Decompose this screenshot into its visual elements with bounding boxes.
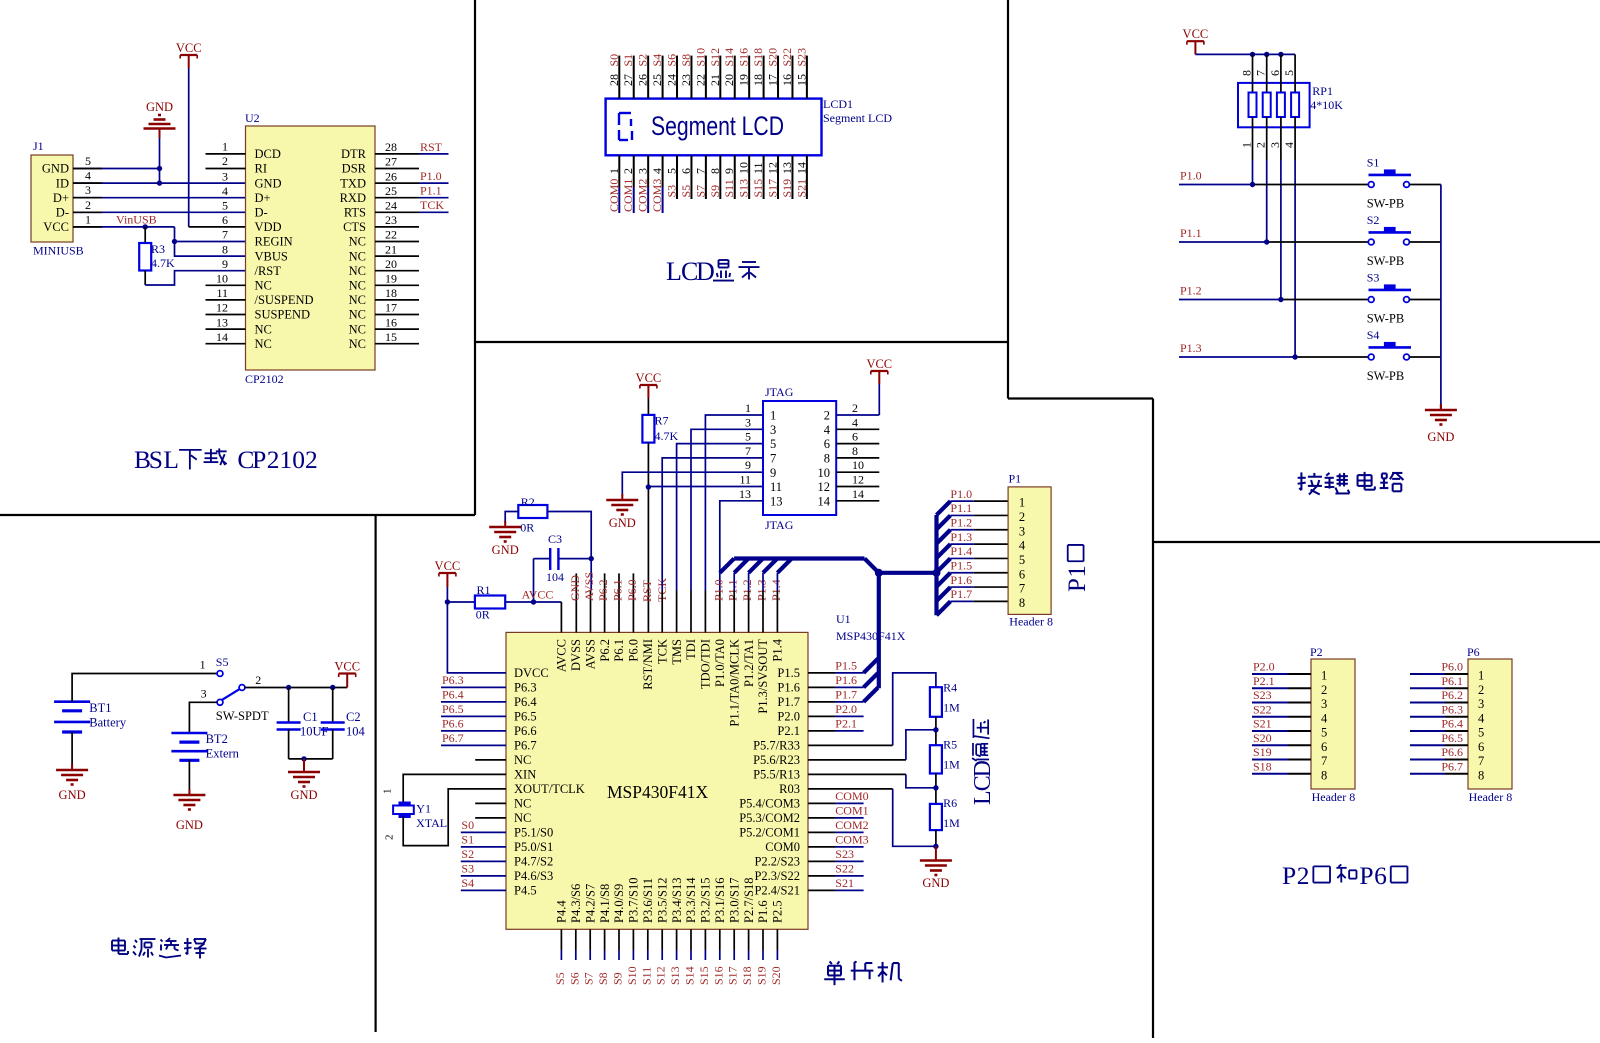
svg-text:18: 18 (385, 286, 397, 300)
P6.2 P6.1 P6.0 top stubs (604, 573, 606, 632)
svg-text:P1.0/TA0: P1.0/TA0 (713, 639, 727, 687)
svg-text:NC: NC (349, 279, 366, 293)
panel border bottom of keypad panel (1008, 397, 1153, 399)
svg-text:1: 1 (1064, 565, 1091, 577)
ground GND (R2) (504, 521, 506, 527)
svg-text:P4.3/S6: P4.3/S6 (569, 884, 583, 923)
wire Y1 pin2 to XOUT (403, 789, 506, 846)
svg-text:LCD1: LCD1 (823, 97, 853, 111)
svg-text:P1.0: P1.0 (420, 169, 442, 183)
svg-text:6: 6 (1268, 70, 1282, 76)
svg-text:P3.6/S11: P3.6/S11 (641, 878, 655, 923)
svg-text:3: 3 (636, 168, 650, 174)
svg-text:2: 2 (1321, 683, 1327, 697)
svg-text:P1.7: P1.7 (950, 587, 972, 601)
svg-text:S10: S10 (693, 48, 707, 67)
svg-text:2: 2 (852, 401, 858, 415)
bus vertical at header (934, 515, 938, 615)
svg-text:P1: P1 (1009, 472, 1022, 486)
net label RST (419, 153, 449, 155)
svg-text:S2: S2 (461, 847, 474, 861)
wire S3 to ground rail (1409, 299, 1441, 301)
LCD bottom pin 13 wire (791, 155, 793, 199)
JTAG pin5 wire to TMS (677, 444, 763, 591)
svg-text:P1.1/TA0/MCLK: P1.1/TA0/MCLK (727, 639, 741, 727)
svg-text:P6.4: P6.4 (442, 688, 464, 702)
svg-text:1M: 1M (943, 816, 960, 830)
svg-text:SW-SPDT: SW-SPDT (216, 709, 269, 723)
svg-text:S14: S14 (683, 966, 697, 985)
svg-text:21: 21 (385, 242, 397, 256)
svg-text:3: 3 (201, 687, 207, 701)
svg-text:S17: S17 (726, 966, 740, 985)
U2 left pin stubs 10-14 (206, 284, 246, 286)
svg-text:DTR: DTR (341, 147, 367, 161)
svg-text:NC: NC (349, 249, 366, 263)
svg-text:16: 16 (385, 315, 397, 329)
svg-text:DVSS: DVSS (569, 639, 583, 671)
svg-text:S4: S4 (650, 54, 664, 67)
svg-text:1: 1 (607, 168, 621, 174)
svg-text:VinUSB: VinUSB (116, 213, 157, 227)
svg-text:S12: S12 (708, 48, 722, 67)
wire TCK column stub (661, 591, 663, 633)
svg-text:10UF: 10UF (300, 725, 329, 739)
svg-text:P2.1: P2.1 (1253, 674, 1275, 688)
svg-text:P1.4: P1.4 (769, 579, 783, 601)
svg-text:3: 3 (1268, 142, 1282, 148)
power VCC (R7) (640, 384, 657, 386)
svg-text:4: 4 (1478, 711, 1485, 725)
wire R6 bottom to node C (935, 830, 937, 846)
JTAG pin7 wire to TCK (662, 458, 763, 591)
IC LCD1 Segment LCD body (606, 99, 822, 156)
wire R33 to R4 (808, 744, 893, 746)
wire P1.6 to bus (808, 686, 835, 688)
wire TDI column stub (690, 591, 692, 633)
svg-text:BT1: BT1 (89, 701, 111, 715)
LCD bottom pin 4 wire (662, 155, 664, 187)
wire P2 pin3 (S23) (1252, 702, 1288, 704)
svg-text:11: 11 (216, 286, 228, 300)
svg-text:P6.6: P6.6 (514, 724, 537, 738)
svg-text:P1.4: P1.4 (950, 544, 972, 558)
net label P1.0 (419, 182, 449, 184)
svg-text:25: 25 (385, 184, 397, 198)
svg-text:ID: ID (56, 176, 69, 190)
svg-text:RTS: RTS (344, 206, 366, 220)
label LCD bias (rotated) (970, 719, 996, 805)
bus diagonals to header rows (937, 501, 951, 515)
svg-text:S20: S20 (769, 966, 783, 985)
svg-text:P4.2/S7: P4.2/S7 (583, 884, 597, 923)
svg-text:P1.6: P1.6 (835, 673, 857, 687)
svg-text:2: 2 (267, 445, 280, 474)
wire GND stem down to J1 (159, 138, 161, 183)
svg-text:U1: U1 (836, 612, 851, 626)
wire P1.2 to switch S3 (1179, 299, 1281, 301)
svg-text:1: 1 (770, 409, 776, 423)
svg-text:NC: NC (349, 293, 366, 307)
wire P2 pin6 (S20) (1252, 744, 1288, 746)
svg-text:Segment LCD: Segment LCD (651, 111, 784, 141)
LCD top pin 23 wire (690, 56, 692, 99)
svg-text:P6.6: P6.6 (442, 717, 464, 731)
ground GND (BT2) (188, 789, 190, 795)
LCD bottom pin 10 wire (748, 155, 750, 199)
LCD bottom pin 8 wire (719, 155, 721, 199)
svg-text:P5.1/S0: P5.1/S0 (514, 826, 553, 840)
svg-text:P3.4/S13: P3.4/S13 (670, 877, 684, 923)
svg-text:5: 5 (1478, 726, 1484, 740)
svg-text:4: 4 (1321, 711, 1328, 725)
power VCC (JTAG) (871, 370, 888, 372)
connector P1 Header 8 (1008, 487, 1051, 615)
svg-text:1: 1 (200, 658, 206, 672)
svg-text:S16: S16 (737, 48, 751, 67)
svg-text:VCC: VCC (1183, 27, 1209, 41)
svg-text:D+: D+ (255, 191, 271, 205)
svg-text:NC: NC (349, 337, 366, 351)
LCD bottom pin 14 wire (806, 155, 808, 199)
wire S2 to ground rail (1409, 241, 1441, 243)
svg-text:S19: S19 (755, 966, 769, 985)
connector P6 Header 8 (1468, 659, 1512, 789)
svg-text:P6.3: P6.3 (442, 673, 464, 687)
svg-text:P1.2: P1.2 (1180, 284, 1202, 298)
battery BT2 Extern (171, 732, 207, 735)
svg-text:NC: NC (349, 308, 366, 322)
svg-text:24: 24 (385, 199, 397, 213)
svg-text:S23: S23 (835, 847, 854, 861)
svg-text:P6.7: P6.7 (442, 731, 464, 745)
svg-text:1: 1 (1321, 669, 1327, 683)
U1 NC stubs left (475, 759, 506, 761)
svg-text:GND: GND (176, 818, 203, 832)
svg-text:D+: D+ (53, 191, 69, 205)
capacitor C1 10UF (288, 688, 290, 723)
LCD top pin 22 wire (705, 56, 707, 99)
svg-text:9: 9 (745, 458, 751, 472)
wire P1.5 to bus (808, 672, 835, 674)
svg-text:P3.3/S14: P3.3/S14 (684, 877, 698, 923)
svg-text:SW-PB: SW-PB (1367, 369, 1405, 383)
svg-text:S3: S3 (1367, 270, 1380, 284)
svg-text:S18: S18 (740, 966, 754, 985)
svg-text:25: 25 (650, 74, 664, 86)
svg-text:NC: NC (255, 337, 272, 351)
power VCC (power panel) (339, 672, 356, 674)
LCD bottom pin 11 wire (763, 155, 765, 199)
svg-text:7: 7 (770, 452, 776, 466)
wire P1.0 column stub (719, 591, 721, 633)
wire R3 bottom to /RST (144, 271, 146, 286)
J1 pin 5 wire (GND) (73, 168, 160, 170)
svg-text:SUSPEND: SUSPEND (255, 308, 311, 322)
wire P2 pin2 (P2.1) (1252, 687, 1288, 689)
panel border left of P2P6 panel (1152, 399, 1154, 1039)
ground GND (C1C2) (303, 759, 305, 766)
svg-text:P: P (1064, 578, 1091, 592)
resistor R7 4.7K (642, 415, 654, 443)
junction node B (933, 785, 938, 790)
svg-text:P3.0/S17: P3.0/S17 (727, 877, 741, 923)
svg-text:RST: RST (420, 140, 443, 154)
svg-text:COM2: COM2 (636, 179, 650, 212)
svg-text:P: P (252, 445, 266, 474)
svg-text:P4.1/S8: P4.1/S8 (598, 884, 612, 923)
wire R23 to node A (808, 759, 906, 761)
svg-text:Header 8: Header 8 (1469, 790, 1513, 804)
svg-text:COM0: COM0 (835, 789, 868, 803)
svg-text:L: L (970, 790, 996, 805)
junction on J1 GND wire (157, 166, 162, 171)
svg-text:10: 10 (852, 458, 864, 472)
svg-text:104: 104 (546, 570, 564, 584)
svg-text:R7: R7 (655, 414, 669, 428)
svg-text:COM0: COM0 (607, 179, 621, 212)
junction on J1 ID wire (157, 180, 162, 185)
svg-text:3: 3 (1478, 697, 1484, 711)
net label P2.1 (808, 730, 835, 732)
svg-text:P1.0: P1.0 (711, 579, 725, 601)
svg-text:11: 11 (770, 480, 782, 494)
svg-text:P1.5: P1.5 (950, 559, 972, 573)
LCD top pin 27 wire (633, 56, 635, 99)
wires P1.1-P1.4 columns (733, 591, 735, 633)
LCD bottom pin 3 wire (647, 155, 649, 187)
svg-text:S2: S2 (636, 54, 650, 67)
wire REGIN to node (175, 241, 246, 243)
svg-text:P2: P2 (1310, 645, 1323, 659)
svg-text:DSR: DSR (342, 162, 367, 176)
LCD top pin 24 wire (676, 56, 678, 99)
svg-text:NC: NC (255, 279, 272, 293)
svg-text:P2.3/S22: P2.3/S22 (754, 869, 800, 883)
svg-text:C3: C3 (548, 532, 562, 546)
svg-text:VBUS: VBUS (255, 249, 288, 263)
svg-text:VCC: VCC (435, 559, 461, 573)
wire P2 pin4 (S22) (1252, 716, 1288, 718)
svg-text:NC: NC (514, 797, 531, 811)
svg-text:S9: S9 (611, 972, 625, 985)
connector J1 MINIUSB (31, 155, 73, 242)
svg-text:P4.4: P4.4 (555, 900, 569, 923)
svg-text:4: 4 (222, 184, 228, 198)
resistor R2 0R (518, 505, 547, 518)
svg-text:3: 3 (745, 415, 751, 429)
wire R13 to node B (808, 773, 906, 775)
svg-text:S3: S3 (665, 185, 679, 198)
svg-text:P5.0/S1: P5.0/S1 (514, 840, 553, 854)
svg-text:12: 12 (766, 162, 780, 174)
junction node C (933, 844, 938, 849)
svg-text:S15: S15 (751, 179, 765, 198)
svg-text:S6: S6 (567, 972, 581, 985)
svg-text:S4: S4 (461, 876, 474, 890)
svg-text:MINIUSB: MINIUSB (33, 244, 84, 258)
svg-text:17: 17 (766, 74, 780, 86)
bus P1 horizontal (734, 556, 864, 560)
wire P6 pin7 (P6.6) (1410, 759, 1445, 761)
panel border vertical between BSL and LCD panels (474, 0, 476, 515)
svg-text:CTS: CTS (343, 220, 366, 234)
svg-text:3: 3 (1321, 697, 1327, 711)
svg-text:P1.3/SVSOUT: P1.3/SVSOUT (756, 639, 770, 714)
svg-text:18: 18 (751, 74, 765, 86)
svg-text:7: 7 (222, 228, 228, 242)
svg-text:P2.0: P2.0 (835, 702, 857, 716)
svg-text:P1.3: P1.3 (1180, 341, 1202, 355)
svg-text:S10: S10 (625, 966, 639, 985)
svg-text:2: 2 (85, 198, 91, 212)
svg-text:P6.3: P6.3 (514, 681, 537, 695)
svg-text:16: 16 (780, 74, 794, 86)
svg-text:P1.5: P1.5 (777, 666, 800, 680)
svg-text:1: 1 (1478, 669, 1484, 683)
svg-text:13: 13 (770, 494, 783, 508)
svg-text:S0: S0 (461, 818, 474, 832)
svg-text:7: 7 (693, 168, 707, 174)
junction AVSS C3 (589, 556, 594, 561)
svg-text:14: 14 (852, 487, 864, 501)
svg-text:REGIN: REGIN (255, 235, 293, 249)
junction RP1 pin6 (1278, 52, 1283, 57)
svg-text:/SUSPEND: /SUSPEND (255, 293, 314, 307)
svg-text:15: 15 (385, 330, 397, 344)
svg-text:5: 5 (85, 154, 91, 168)
svg-text:L: L (163, 445, 179, 474)
svg-text:5: 5 (745, 430, 751, 444)
wire P6 pin2 (P6.1) (1410, 687, 1445, 689)
svg-text:13: 13 (780, 162, 794, 174)
net labels COM0-COM3 S23 S22 S21 (808, 802, 835, 804)
wire P2 pin7 (S19) (1252, 759, 1288, 761)
svg-text:P1.1: P1.1 (726, 579, 740, 601)
svg-text:P6.6: P6.6 (1441, 745, 1463, 759)
switch S1 SW-PB (1368, 182, 1374, 188)
svg-text:TCK: TCK (420, 198, 444, 212)
panel border bottom of LCD panel (475, 341, 1008, 343)
wire VCC down to DVCC (447, 602, 506, 673)
svg-text:COM2: COM2 (835, 818, 868, 832)
svg-text:P6.7: P6.7 (1441, 759, 1463, 773)
svg-text:NC: NC (255, 322, 272, 336)
svg-text:S23: S23 (1253, 688, 1272, 702)
svg-text:13: 13 (739, 487, 751, 501)
svg-text:S4: S4 (1367, 328, 1380, 342)
wire S1 to ground rail (1409, 184, 1441, 186)
svg-text:8: 8 (1321, 768, 1327, 782)
svg-text:P4.5: P4.5 (514, 884, 537, 898)
junction C1C2 ground (301, 756, 306, 761)
wire VCC stem down to VDD net (188, 55, 190, 68)
svg-text:P2.5: P2.5 (771, 900, 785, 923)
svg-text:10: 10 (737, 162, 751, 174)
wire R5 bottom to node B (935, 774, 937, 804)
svg-text:8: 8 (708, 168, 722, 174)
svg-text:22: 22 (693, 74, 707, 86)
svg-text:TCK: TCK (655, 639, 669, 664)
svg-text:P2.0: P2.0 (1253, 660, 1275, 674)
svg-text:P: P (1282, 861, 1296, 890)
wire BT2 bottom to ground (188, 760, 190, 795)
LCD bottom pin 6 wire (690, 155, 692, 199)
svg-text:S8: S8 (679, 54, 693, 67)
JTAG pin3 wire to TDI (691, 429, 763, 590)
svg-text:RST/NMI: RST/NMI (641, 639, 655, 690)
wire VCC to U2 VDD (189, 226, 246, 228)
svg-text:NC: NC (349, 322, 366, 336)
svg-text:P4.7/S2: P4.7/S2 (514, 855, 553, 869)
svg-text:P2.4/S21: P2.4/S21 (754, 884, 800, 898)
connector P2 Header 8 (1311, 659, 1355, 789)
svg-text:1: 1 (1240, 142, 1254, 148)
power VCC (keypad) (1187, 40, 1204, 42)
JTAG header J2 (763, 401, 836, 515)
svg-text:Segment LCD: Segment LCD (823, 111, 892, 125)
svg-text:S13: S13 (668, 966, 682, 985)
svg-text:Y1: Y1 (416, 802, 431, 816)
svg-text:3: 3 (222, 169, 228, 183)
svg-text:8: 8 (852, 444, 858, 458)
svg-text:P6.0: P6.0 (627, 639, 641, 662)
title keypad circuit (1300, 472, 1302, 490)
svg-text:P: P (1359, 861, 1373, 890)
svg-text:P6.0: P6.0 (1441, 660, 1463, 674)
panel border left of keypad panel (1007, 0, 1009, 399)
svg-text:6: 6 (1478, 740, 1484, 754)
svg-text:VCC: VCC (176, 41, 202, 55)
bus vertical to P1.5-P1.7 (877, 573, 881, 689)
wire R7 to RST/NMI pin (647, 443, 649, 633)
svg-text:4: 4 (650, 168, 664, 174)
junction RP1 pin8 (1250, 52, 1255, 57)
svg-text:12: 12 (818, 480, 831, 494)
svg-text:P2.2/S23: P2.2/S23 (754, 855, 800, 869)
svg-text:27: 27 (621, 74, 635, 86)
wire P2 pin8 (S18) (1252, 773, 1288, 775)
wire S5 pin3 to BT2 (189, 702, 217, 733)
capacitor C2 104 (332, 688, 334, 723)
LCD bottom pin 9 wire (734, 155, 736, 199)
svg-text:S15: S15 (697, 966, 711, 985)
wire R2 left to ground (505, 512, 518, 524)
svg-text:P4.0/S9: P4.0/S9 (612, 884, 626, 923)
net labels S0-S4 (461, 831, 506, 833)
svg-text:P6.2: P6.2 (1441, 688, 1463, 702)
svg-text:S8: S8 (596, 972, 610, 985)
svg-text:GND: GND (1427, 430, 1454, 444)
J1 pin 4 wire (ID) to U2 GND (73, 182, 246, 184)
svg-text:9: 9 (770, 466, 776, 480)
svg-text:Battery: Battery (89, 716, 127, 730)
bus junction right (933, 569, 941, 577)
svg-text:R6: R6 (943, 796, 957, 810)
svg-text:1: 1 (222, 139, 228, 153)
svg-text:21: 21 (708, 74, 722, 86)
svg-text:P3.1/S16: P3.1/S16 (713, 877, 727, 923)
svg-text:P3.7/S10: P3.7/S10 (627, 877, 641, 923)
svg-text:S11: S11 (639, 967, 653, 985)
JTAG right stubs 4-14 (836, 428, 879, 430)
svg-text:S1: S1 (461, 833, 474, 847)
svg-text:10: 10 (216, 272, 228, 286)
svg-text:C2: C2 (346, 710, 361, 724)
svg-text:2: 2 (1297, 861, 1310, 890)
wire TDO column stub (704, 591, 706, 633)
capacitor C3 104 (549, 548, 551, 570)
